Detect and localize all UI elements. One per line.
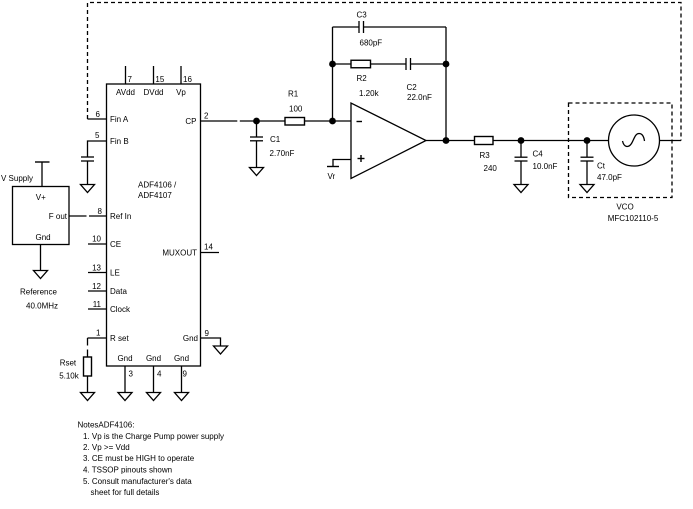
pin 2 CP stub and wire — [201, 120, 238, 122]
junction node R2 left — [329, 61, 336, 68]
svg-text:R set: R set — [110, 334, 129, 343]
svg-text:2. Vp >= Vdd: 2. Vp >= Vdd — [83, 443, 130, 452]
ground C1 — [250, 168, 264, 176]
svg-text:VCO: VCO — [616, 203, 633, 212]
svg-text:Vp: Vp — [176, 88, 186, 97]
svg-text:ADF4107: ADF4107 — [138, 191, 172, 200]
pin 3 Gnd bottom stub — [124, 366, 126, 393]
svg-text:Reference: Reference — [20, 288, 57, 297]
resistor R2 1.20k — [351, 60, 371, 68]
svg-text:22.0nF: 22.0nF — [407, 93, 432, 102]
wire Vr to non-inverting input — [333, 160, 351, 167]
svg-text:13: 13 — [92, 264, 101, 273]
wire op-amp output to R3 — [426, 140, 475, 142]
junction node Ct — [584, 137, 591, 144]
svg-text:Fin A: Fin A — [110, 115, 129, 124]
power V Supply — [35, 161, 50, 163]
svg-text:Data: Data — [110, 287, 127, 296]
capacitor C-finB — [81, 156, 94, 158]
svg-text:Ref In: Ref In — [110, 212, 131, 221]
svg-text:9: 9 — [205, 329, 210, 338]
ground right pin 9 — [214, 346, 228, 354]
svg-text:R3: R3 — [480, 151, 491, 160]
svg-text:NotesADF4106:: NotesADF4106: — [78, 421, 135, 430]
svg-text:C3: C3 — [357, 11, 368, 20]
wire R2 to C2 — [371, 63, 407, 65]
ground pin 9b — [175, 393, 189, 401]
pin 9 Gnd right stub — [201, 338, 221, 346]
junction node CP/C1/R1 — [253, 118, 260, 125]
svg-text:16: 16 — [183, 75, 192, 84]
svg-text:Ct: Ct — [597, 162, 606, 171]
svg-text:40.0MHz: 40.0MHz — [26, 302, 58, 311]
svg-text:Fin B: Fin B — [110, 137, 129, 146]
svg-text:15: 15 — [155, 75, 164, 84]
svg-text:1.20k: 1.20k — [359, 89, 380, 98]
svg-text:Gnd: Gnd — [117, 354, 132, 363]
svg-text:R2: R2 — [357, 74, 368, 83]
wire F out to Ref In — [69, 215, 87, 217]
pin 5 Fin B stub — [88, 140, 107, 142]
wire inverting node to C3 — [333, 26, 360, 28]
svg-text:14: 14 — [204, 243, 213, 252]
ground Ct — [580, 185, 594, 193]
svg-text:5.10k: 5.10k — [59, 372, 80, 381]
junction node op-amp output — [443, 137, 450, 144]
junction node C4 — [518, 137, 525, 144]
svg-text:ADF4106 /: ADF4106 / — [138, 181, 177, 190]
wire C2 to output node — [411, 63, 447, 65]
svg-text:5. Consult manufacturer's data: 5. Consult manufacturer's data — [83, 477, 192, 486]
svg-text:sheet for full details: sheet for full details — [91, 488, 160, 497]
ground finB — [81, 185, 95, 193]
svg-text:1. Vp is the Charge Pump power: 1. Vp is the Charge Pump power supply — [83, 432, 224, 441]
ground C4 — [514, 185, 528, 193]
wire CP node to R1 — [257, 120, 286, 122]
svg-text:9: 9 — [183, 369, 188, 378]
svg-text:DVdd: DVdd — [143, 88, 163, 97]
svg-text:3. CE must be HIGH to operate: 3. CE must be HIGH to operate — [83, 454, 195, 463]
svg-text:Gnd: Gnd — [36, 233, 51, 242]
svg-text:680pF: 680pF — [360, 39, 383, 48]
resistor Rset 5.10k — [84, 357, 92, 376]
svg-text:MUXOUT: MUXOUT — [162, 248, 197, 257]
svg-text:11: 11 — [93, 300, 102, 309]
pin 10 CE stub — [88, 243, 107, 245]
capacitor C1 — [256, 121, 258, 137]
svg-text:47.0pF: 47.0pF — [597, 173, 622, 182]
svg-text:10: 10 — [92, 235, 101, 244]
junction node inverting input — [329, 118, 336, 125]
svg-text:12: 12 — [92, 282, 101, 291]
svg-text:7: 7 — [128, 75, 133, 84]
capacitor Ct 47.0pF — [586, 141, 588, 158]
capacitor C3 680pF — [358, 21, 360, 33]
svg-text:F out: F out — [49, 212, 68, 221]
svg-text:Rset: Rset — [60, 358, 77, 367]
wire inverting node up to feedback — [332, 27, 334, 121]
op-amp U1 — [351, 103, 426, 179]
pin 16 Vp stub — [180, 66, 182, 84]
VCO oscillator circle — [609, 115, 660, 166]
svg-text:Gnd: Gnd — [146, 354, 161, 363]
svg-text:100: 100 — [289, 105, 303, 114]
capacitor C4 10.0nF — [520, 141, 522, 158]
VCO dashed box — [569, 103, 673, 198]
pin 9b Gnd bottom stub — [181, 366, 183, 393]
svg-text:C2: C2 — [407, 83, 418, 92]
wire output node up to feedback — [445, 27, 447, 141]
svg-text:Gnd: Gnd — [174, 354, 189, 363]
svg-text:3: 3 — [129, 369, 134, 378]
svg-text:Gnd: Gnd — [183, 334, 198, 343]
svg-text:V+: V+ — [36, 193, 46, 202]
svg-text:CP: CP — [185, 117, 196, 126]
ground pin 3 — [118, 393, 132, 401]
pin 6 Fin A stub — [88, 118, 107, 120]
svg-text:1: 1 — [96, 329, 101, 338]
svg-text:C1: C1 — [270, 135, 281, 144]
wire Fin B to decoupling cap — [87, 141, 90, 157]
svg-text:4: 4 — [157, 369, 162, 378]
wire R3 to C4 node — [493, 140, 521, 142]
svg-text:MFC102110-5: MFC102110-5 — [608, 214, 659, 223]
reference oscillator block — [13, 187, 70, 245]
pin 11 Clock stub — [88, 308, 107, 310]
wire R3 node to VCO node — [521, 140, 587, 142]
pin 4 Gnd bottom stub — [153, 366, 155, 393]
pin 1 R set stub — [88, 337, 107, 339]
svg-text:10.0nF: 10.0nF — [533, 162, 558, 171]
wire R1 to op-amp inverting input — [333, 120, 352, 122]
capacitor C2 22.0nF — [405, 58, 407, 70]
svg-text:C4: C4 — [533, 150, 544, 159]
svg-text:5: 5 — [95, 131, 100, 140]
svg-text:6: 6 — [96, 110, 101, 119]
svg-text:240: 240 — [484, 164, 498, 173]
wire R set to Rset resistor — [87, 338, 89, 346]
pin 12 Data stub — [88, 290, 107, 292]
svg-text:Clock: Clock — [110, 305, 131, 314]
resistor R3 240 — [475, 137, 494, 145]
svg-text:8: 8 — [98, 207, 103, 216]
resistor R1 100 — [285, 118, 305, 126]
pin 13 LE stub — [88, 272, 107, 274]
wire VCO output — [660, 140, 682, 142]
wire C3 to output node — [364, 26, 447, 28]
svg-text:V Supply: V Supply — [1, 174, 33, 183]
svg-text:R1: R1 — [288, 90, 299, 99]
wire inverting node to R2 — [333, 63, 352, 65]
svg-text:CE: CE — [110, 240, 121, 249]
pin 7 AVdd stub — [125, 66, 127, 84]
svg-text:AVdd: AVdd — [116, 88, 135, 97]
svg-text:Vr: Vr — [328, 172, 336, 181]
pin 14 MUXOUT stub — [201, 252, 220, 254]
pin 8 Ref In stub — [89, 215, 107, 217]
ground Rset — [81, 393, 95, 401]
svg-text:2: 2 — [204, 112, 209, 121]
wire feedback dashed path from VCO output to Fin A — [88, 3, 682, 141]
svg-text:4. TSSOP pinouts shown: 4. TSSOP pinouts shown — [83, 466, 172, 475]
pin 15 DVdd stub — [153, 66, 155, 84]
junction node R2 right — [443, 61, 450, 68]
ground pin 4 — [147, 393, 161, 401]
wire R1 to inverting node — [305, 120, 333, 122]
IC U1 ADF4106/ADF4107 body — [107, 84, 201, 366]
ground reference — [40, 245, 42, 271]
svg-text:2.70nF: 2.70nF — [270, 149, 295, 158]
svg-text:LE: LE — [110, 268, 120, 277]
